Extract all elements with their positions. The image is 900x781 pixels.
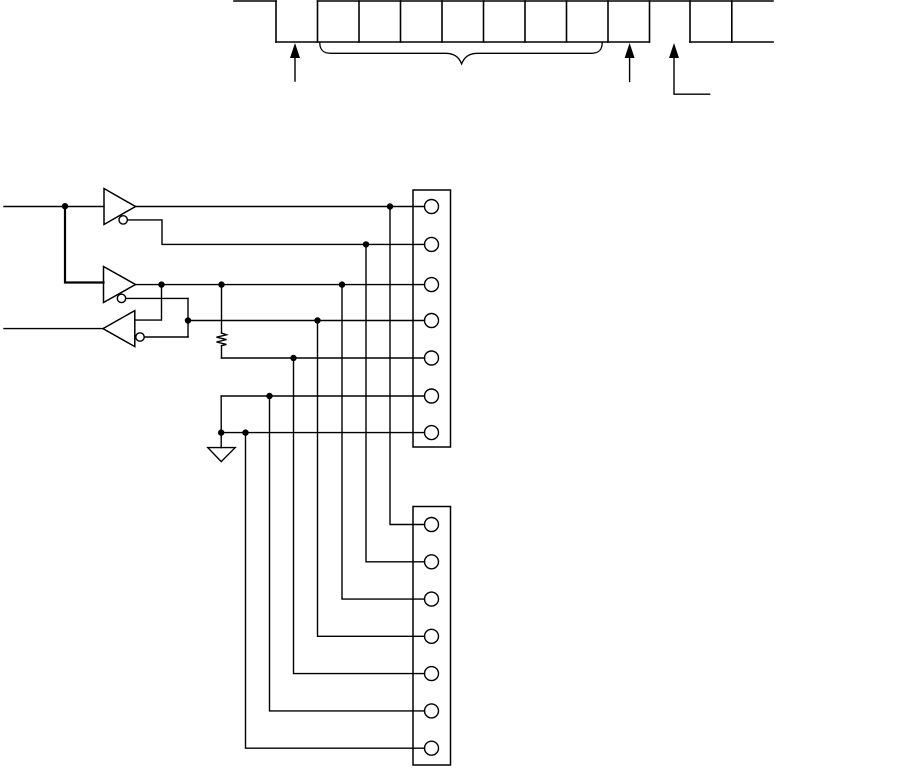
connector J2 pin 2 (425, 555, 439, 569)
wire TXD input (4, 206, 104, 208)
wire ground bus vertical (220, 396, 222, 433)
wire to J1 pin6 (221, 395, 424, 397)
connector J2 pin 1 (425, 518, 439, 532)
wire waveform top rail (318, 0, 774, 2)
wire ground lead (220, 433, 222, 448)
enable bubble U2 (136, 333, 144, 341)
serial frame waveform idle-high segment (234, 0, 276, 2)
connector J2 pin 5 (425, 667, 439, 681)
resistor R1 lead top (221, 285, 223, 333)
wire enable bus vertical (187, 298, 189, 337)
wire TXD branch to driver U1B (65, 207, 104, 283)
wire to J1 pin7 (221, 432, 424, 434)
connector J1 pin 4 (425, 314, 439, 328)
receiver U2 (103, 311, 135, 347)
arrow stop-bit with leader (669, 43, 710, 94)
wire waveform bottom rail right (690, 41, 773, 43)
wire U1B output to J1 pin3 (136, 284, 425, 286)
node enable/pin4 junction (185, 317, 191, 323)
node TXD junction (62, 203, 68, 209)
connector J2 pin 7 (425, 741, 439, 755)
wire U2 enable (144, 336, 188, 338)
connector J2 pin 3 (425, 592, 439, 606)
wire start-bit falling edge (275, 1, 277, 42)
node R1 top junction (218, 281, 224, 287)
wire U1A output to J1 pin1 (136, 206, 425, 208)
node J1 pin7 tap (242, 429, 248, 435)
connector J1 pin 7 (425, 426, 439, 440)
wire U2 input loopback (135, 285, 162, 321)
connector J1 pin 5 (425, 351, 439, 365)
bit cell separators (318, 1, 732, 42)
connector J1 pin 2 (425, 237, 439, 251)
arrow start-bit (290, 43, 300, 81)
wire to J1 pin5 (222, 357, 425, 359)
node J1 pin2 tap (363, 241, 369, 247)
wire J1 pin3 to J2 pin3 (342, 285, 425, 599)
connector J2 pin 4 (425, 629, 439, 643)
wire to J1 pin4 (188, 320, 425, 322)
wire J1 pin1 to J2 pin1 (390, 207, 425, 525)
connector J2 (413, 507, 451, 766)
node J1 pin3 tap (339, 281, 345, 287)
node ground junction (218, 429, 224, 435)
connector J1 (413, 190, 451, 447)
resistor R1 (217, 333, 227, 346)
wire waveform low/bottom rail left (276, 41, 650, 43)
buffer U1B (104, 267, 136, 303)
connector J1 pin 6 (425, 389, 439, 403)
node U2 loopback junction (158, 281, 164, 287)
enable bubble U1B (117, 294, 125, 302)
buffer U1A (104, 189, 136, 225)
connector J2 pin 6 (425, 704, 439, 718)
connector J1 pin 3 (425, 278, 439, 292)
node J1 pin5 tap (290, 355, 296, 361)
connector J1 pin 1 (425, 200, 439, 214)
wire J1 pin6 to J2 pin6 (270, 396, 425, 711)
enable bubble U1A (119, 216, 127, 224)
node J1 pin1 tap (387, 203, 393, 209)
wire U1B enable (126, 297, 188, 299)
wire J1 pin7 to J2 pin7 (246, 433, 425, 749)
node J1 pin4 tap (314, 317, 320, 323)
resistor R1 lead bottom (221, 346, 223, 358)
ground (208, 448, 235, 462)
wire RXD output (4, 328, 103, 330)
node J1 pin6 tap (266, 393, 272, 399)
wire J1 pin5 to J2 pin5 (294, 358, 425, 674)
arrow parity-bit (625, 43, 635, 82)
wire J1 pin2 to J2 pin2 (366, 244, 425, 561)
brace data-bits (320, 43, 602, 64)
wire U1A enable (127, 220, 424, 245)
wire J1 pin4 to J2 pin4 (318, 321, 425, 637)
